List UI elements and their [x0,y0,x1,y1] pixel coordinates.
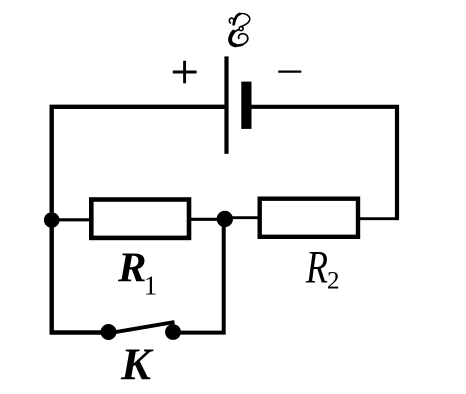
svg-text:R: R [117,244,146,291]
wire: R2 left lead from node B [228,216,261,219]
wire: R2 right lead to right vertical wire [357,217,398,220]
switch K right contact dot [165,324,181,340]
label R1 [117,244,157,300]
battery E1 negative plate (short thick) [241,82,251,129]
svg-text:K: K [120,340,154,390]
svg-text:R: R [305,242,328,293]
node A junction dot (left of R1) [44,212,60,228]
switch K left contact dot [101,324,117,340]
svg-text:2: 2 [327,268,340,295]
wire: battery - terminal to top-right corner down to R2 [246,107,397,220]
wire: node B down to bottom wire right segment to switch right contact [172,219,224,333]
switch K blade (slightly open) [107,322,175,334]
wire: R1 left lead from node A [55,218,92,221]
wire: left loop (bottom-left to top-left corner to battery + terminal) [52,107,227,333]
resistor R1 body [91,200,189,238]
label R2 [305,242,339,294]
svg-text:1: 1 [144,271,158,301]
node B junction dot (between R1 and R2) [217,211,233,227]
resistor R2 body [260,199,358,237]
battery E1 positive plate (long thin) [224,56,228,153]
label: EMF script-E above battery [229,14,249,46]
label: - polarity sign [278,70,301,72]
wire: R1 right lead to node B [188,218,221,221]
label: + polarity sign [173,61,197,84]
